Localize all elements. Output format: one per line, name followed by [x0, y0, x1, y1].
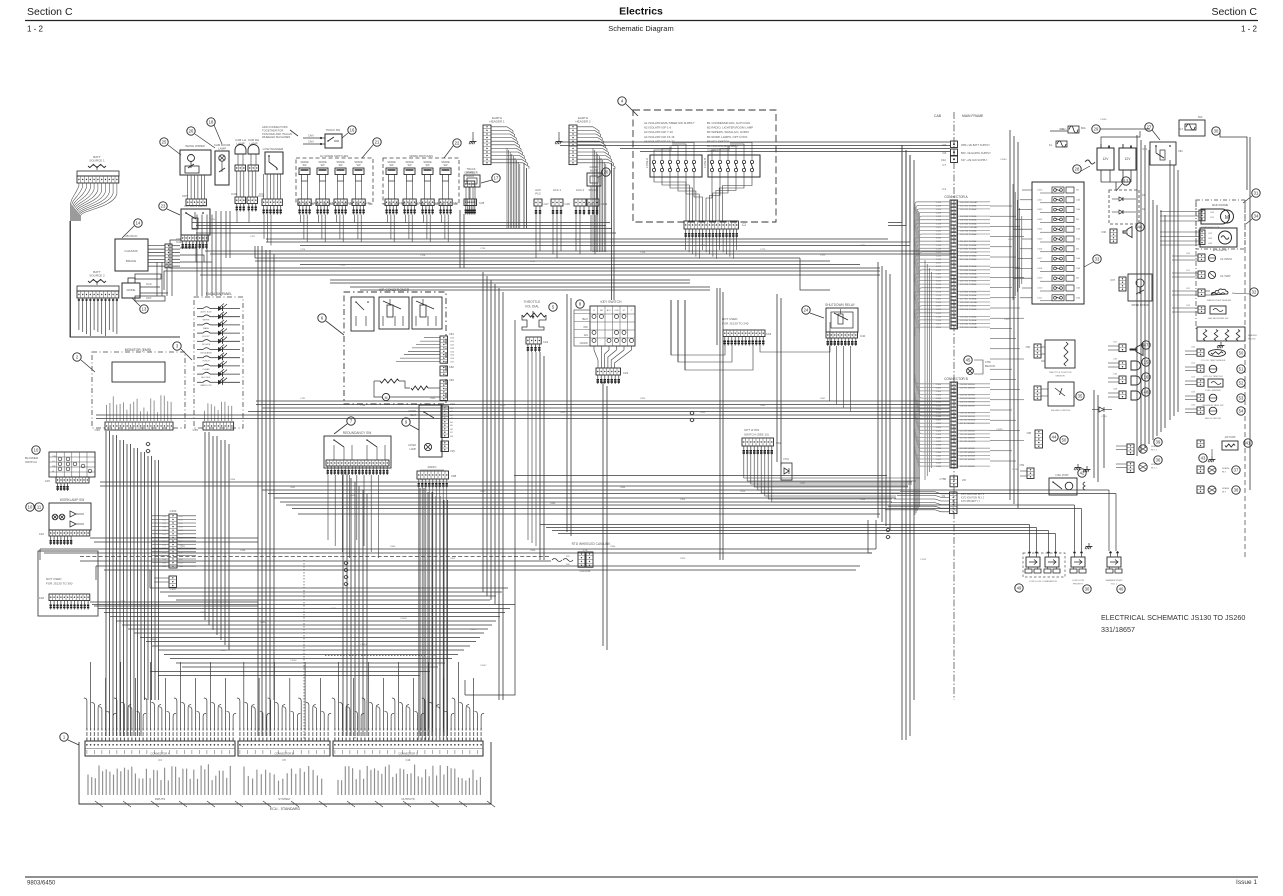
svg-text:1 - 2: 1 - 2: [1241, 25, 1258, 34]
svg-text:C833: C833: [700, 412, 706, 414]
svg-text:C12: C12: [941, 158, 947, 162]
svg-text:HEATER: HEATER: [1248, 334, 1257, 337]
svg-text:C1099: C1099: [996, 429, 1003, 431]
svg-text:8: 8: [579, 302, 582, 307]
svg-text:C102: C102: [601, 202, 608, 206]
svg-text:RESERVE TANK SW: RESERVE TANK SW: [1203, 404, 1225, 407]
svg-text:C847: C847: [820, 398, 826, 400]
connector C59: [1027, 468, 1034, 479]
svg-text:C60: C60: [435, 201, 440, 205]
svg-text:C58: C58: [1027, 432, 1032, 435]
svg-text:WASH: WASH: [203, 327, 210, 330]
not used connector: [49, 594, 90, 601]
svg-text:VOL DIAL: VOL DIAL: [525, 305, 539, 309]
dashed group box spare switches 2: [383, 158, 459, 204]
svg-text:C875: C875: [420, 479, 426, 481]
svg-text:38: 38: [1234, 488, 1239, 493]
svg-text:CHARGER: CHARGER: [464, 171, 477, 175]
svg-text:C106: C106: [936, 209, 942, 211]
svg-text:KEY SWITCH: KEY SWITCH: [600, 300, 622, 304]
dashed CAN bus line: [80, 556, 551, 558]
svg-text:C181: C181: [936, 298, 942, 300]
svg-text:15A: 15A: [1076, 238, 1080, 241]
svg-text:MID: MID: [52, 466, 56, 468]
page header rule: [25, 20, 1258, 22]
svg-text:RLY 2: RLY 2: [1151, 468, 1158, 470]
svg-text:C332: C332: [936, 441, 942, 443]
svg-text:40: 40: [1119, 587, 1124, 592]
svg-text:K13: K13: [162, 527, 166, 529]
svg-text:108 G8 SENSE: 108 G8 SENSE: [960, 412, 976, 414]
svg-text:53: 53: [1239, 396, 1244, 401]
svg-text:ST: ST: [623, 310, 626, 312]
svg-text:5A: 5A: [1076, 218, 1079, 221]
svg-text:C945: C945: [390, 546, 396, 548]
earth header 2 fan wires: [577, 127, 599, 133]
svg-text:C6: C6: [942, 143, 946, 147]
monitor connector C56: [105, 422, 173, 430]
svg-text:120 G0 SENSE: 120 G0 SENSE: [960, 455, 976, 457]
svg-text:W80 +VE BATT SUPPLY: W80 +VE BATT SUPPLY: [961, 143, 990, 147]
svg-text:49: 49: [1017, 586, 1022, 591]
svg-text:C1092: C1092: [1060, 129, 1067, 131]
opt hyds wires down: [744, 455, 920, 478]
svg-text:51: 51: [1239, 367, 1244, 372]
svg-text:ACC 1: ACC 1: [553, 188, 562, 192]
ladder right feed wires: [990, 205, 1012, 207]
valve feed wires: [1029, 525, 1031, 552]
svg-text:Section C: Section C: [1211, 6, 1257, 18]
svg-text:ADD CONNECTORS: ADD CONNECTORS: [262, 125, 288, 129]
svg-text:HYD OIL TEMP SW: HYD OIL TEMP SW: [1203, 376, 1223, 378]
solenoid valve V1: [1026, 557, 1040, 567]
svg-text:G26: G26: [450, 358, 455, 360]
circled ref 54: [1237, 407, 1245, 415]
svg-text:C409: C409: [1037, 278, 1043, 280]
svg-text:C312: C312: [936, 405, 942, 407]
svg-text:115 N5 SENSE: 115 N5 SENSE: [960, 438, 975, 440]
svg-text:H8: H8: [450, 436, 454, 438]
svg-text:K32: K32: [179, 523, 183, 525]
svg-text:AC SPARE SWITCHES: AC SPARE SWITCHES: [320, 154, 349, 158]
svg-text:OUTPUTS: OUTPUTS: [401, 797, 414, 801]
shutdown relay wires down: [829, 346, 831, 401]
circled ref 13: [140, 305, 148, 313]
svg-text:213 N03 SIGNAL: 213 N03 SIGNAL: [960, 247, 978, 250]
svg-text:C127: C127: [936, 234, 942, 236]
svg-text:FOR JS130 TO 240: FOR JS130 TO 240: [722, 322, 749, 326]
circled ref 23: [159, 202, 167, 210]
connector A ladder body: [950, 200, 958, 329]
svg-text:CONNECTOR B: CONNECTOR B: [274, 752, 293, 756]
connector B ladder body: [950, 382, 958, 468]
svg-text:C193: C193: [936, 313, 942, 315]
svg-text:OFF: OFF: [52, 456, 57, 458]
svg-text:SW: SW: [302, 164, 307, 167]
svg-text:C798: C798: [360, 405, 366, 407]
after-heat unit 9: [419, 405, 442, 457]
svg-text:LOW FLOW COMBINATION: LOW FLOW COMBINATION: [1029, 580, 1057, 583]
svg-text:TRACKED AND ITALIAN: TRACKED AND ITALIAN: [262, 132, 292, 136]
svg-text:C100: C100: [170, 509, 177, 513]
svg-text:C60: C60: [453, 201, 458, 205]
svg-text:50: 50: [1239, 351, 1244, 356]
svg-text:B2 RADIO, LIGHTER,ROOM LAMP: B2 RADIO, LIGHTER,ROOM LAMP: [707, 126, 753, 130]
svg-text:116 W6 SENSE: 116 W6 SENSE: [960, 441, 976, 443]
facia dashed box: [194, 297, 243, 428]
right column feed wires: [1160, 211, 1199, 213]
svg-text:C1057: C1057: [480, 665, 487, 667]
svg-text:5A: 5A: [1076, 247, 1079, 250]
svg-text:GAS RECEIVER SW: GAS RECEIVER SW: [1208, 317, 1229, 320]
circled refs 10 11: [26, 503, 34, 511]
svg-text:CHASSIS: CHASSIS: [124, 249, 137, 253]
wire bus from C44: [180, 248, 196, 262]
svg-text:C1043: C1043: [360, 644, 367, 646]
circled ref 30: [1212, 127, 1220, 135]
svg-text:C938: C938: [240, 550, 246, 552]
svg-text:SPARE: SPARE: [1222, 487, 1230, 490]
svg-text:THROTTLE POSITION: THROTTLE POSITION: [1049, 372, 1072, 374]
svg-text:K33: K33: [179, 527, 183, 529]
centre spare relay 2: [1127, 462, 1134, 473]
circled ref 20: [602, 168, 610, 176]
svg-text:C1064: C1064: [1000, 159, 1007, 161]
circled ref 51: [1237, 365, 1245, 373]
svg-text:Section C: Section C: [27, 6, 73, 18]
svg-text:C735: C735: [480, 248, 486, 250]
connector C87 under wash wiper: [186, 199, 206, 206]
svg-text:PLG: PLG: [535, 192, 541, 196]
svg-text:C84: C84: [1208, 243, 1213, 245]
svg-text:C130: C130: [936, 238, 942, 240]
svg-text:TORCH: TORCH: [202, 361, 210, 363]
svg-text:C175: C175: [936, 291, 942, 293]
track spare connector: [464, 181, 475, 187]
svg-text:9: 9: [405, 420, 408, 425]
svg-text:5A: 5A: [1076, 277, 1079, 280]
svg-text:2: 2: [76, 355, 79, 360]
svg-text:100 B0 SENSE: 100 B0 SENSE: [960, 384, 975, 386]
svg-text:INPUTS: INPUTS: [155, 797, 165, 801]
svg-text:LOW FLOW: LOW FLOW: [1072, 580, 1085, 582]
svg-text:C157: C157: [936, 270, 942, 272]
svg-text:MUTE: MUTE: [590, 169, 598, 173]
svg-text:C82: C82: [449, 365, 454, 369]
svg-text:A4 ISOLATR IGP 15-16: A4 ISOLATR IGP 15-16: [644, 135, 675, 139]
a/c relay 1: [351, 297, 374, 331]
svg-text:B3 WIPERS, WASH,A/C, HORN: B3 WIPERS, WASH,A/C, HORN: [707, 130, 749, 134]
svg-text:C81: C81: [1210, 217, 1215, 219]
svg-text:C407: C407: [1037, 258, 1043, 260]
svg-text:C763: C763: [700, 245, 706, 247]
svg-text:BOOST: BOOST: [202, 336, 210, 338]
svg-text:34: 34: [1254, 214, 1259, 219]
engine control unit 35: [1048, 382, 1074, 406]
svg-text:C728: C728: [420, 255, 426, 257]
circled ref 33: [1093, 255, 1101, 263]
svg-text:C27: C27: [544, 202, 550, 206]
circled ref 40: [1117, 585, 1125, 593]
main fuse 80A (ref 29): [1068, 126, 1079, 133]
spare relay row 1: [1197, 466, 1204, 473]
circled ref 49: [1015, 584, 1023, 592]
svg-text:C112: C112: [936, 216, 942, 218]
svg-text:15A: 15A: [1076, 296, 1080, 299]
monitor dashed box: [92, 352, 185, 428]
svg-text:C87: C87: [182, 194, 188, 198]
svg-text:REDUNDANCY SW: REDUNDANCY SW: [343, 431, 371, 435]
ECU riser wires: [86, 701, 88, 728]
twisted pair near monitor: [146, 442, 150, 446]
svg-text:5: 5: [552, 305, 555, 310]
svg-text:C60: C60: [366, 201, 371, 205]
svg-text:331/18657: 331/18657: [1101, 625, 1135, 634]
svg-text:A1 ISOLATR,EMS,TIMER,SW SUPPL: A1 ISOLATR,EMS,TIMER,SW SUPPLY: [644, 121, 695, 125]
svg-text:WIPER MOTOR: WIPER MOTOR: [1131, 304, 1149, 307]
solenoid valve V4: [1107, 557, 1121, 567]
svg-text:C812: C812: [500, 405, 506, 407]
ECU connector B: [238, 741, 330, 756]
svg-text:FACIA SW PANEL: FACIA SW PANEL: [206, 292, 232, 296]
svg-text:22: 22: [455, 141, 460, 146]
svg-text:C840: C840: [760, 405, 766, 407]
svg-text:K07 +VE IGN SUPPLY: K07 +VE IGN SUPPLY: [961, 158, 988, 162]
svg-text:208 X08 SIGNAL: 208 X08 SIGNAL: [960, 229, 978, 232]
circled ref 24: [802, 306, 810, 314]
sensor CYL OIL TEMP SENDER: [1197, 349, 1204, 356]
svg-text:CONNECTOR A: CONNECTOR A: [151, 752, 170, 756]
fuel transfer connector: [1035, 430, 1043, 448]
svg-text:C18: C18: [39, 596, 45, 600]
svg-text:C100: C100: [936, 202, 942, 204]
svg-text:C: C: [631, 310, 633, 312]
svg-text:C402: C402: [1037, 209, 1043, 211]
svg-text:C160: C160: [936, 273, 942, 275]
wire drops to facia area: [196, 215, 198, 297]
svg-text:C60: C60: [399, 201, 404, 205]
circled ref 16: [348, 126, 356, 134]
svg-text:Schematic Diagram: Schematic Diagram: [608, 24, 673, 33]
svg-text:H6: H6: [450, 429, 454, 431]
svg-text:K15: K15: [162, 534, 166, 536]
circled ref 7: [347, 417, 355, 425]
svg-text:A2 ISOLATR IGP 1-6: A2 ISOLATR IGP 1-6: [644, 126, 672, 130]
circled ref 52: [1237, 379, 1245, 387]
svg-text:101 R1 SENSE: 101 R1 SENSE: [960, 387, 976, 389]
svg-text:C401: C401: [1037, 199, 1043, 201]
svg-text:SOURCE 1: SOURCE 1: [89, 159, 105, 163]
legend dashed box: [633, 110, 776, 222]
svg-text:C742: C742: [530, 261, 536, 263]
diode near buzzer: [1099, 407, 1104, 412]
svg-text:K34: K34: [179, 530, 183, 532]
svg-text:SW: SW: [425, 164, 430, 167]
svg-text:35: 35: [1078, 394, 1083, 399]
svg-text:C320: C320: [936, 420, 942, 422]
a/c connector C83: [440, 380, 448, 400]
svg-text:C344: C344: [936, 463, 942, 465]
svg-text:C52: C52: [1191, 377, 1196, 379]
svg-text:C50: C50: [1191, 347, 1196, 349]
svg-text:C199: C199: [936, 320, 942, 322]
svg-text:50A: 50A: [1198, 116, 1203, 119]
circled ref 9: [402, 418, 410, 426]
connectors C30 C31 under cab lamps: [235, 197, 246, 204]
not used wiring centre: [671, 300, 725, 355]
svg-text:C83: C83: [1208, 238, 1213, 240]
svg-text:C700: C700: [210, 219, 216, 221]
throttle position sensor: [1045, 340, 1075, 368]
circled ref 42: [1078, 469, 1086, 477]
svg-text:H7: H7: [450, 432, 454, 434]
horn 46: [1110, 229, 1117, 243]
svg-text:BRAKE: BRAKE: [126, 259, 136, 263]
svg-text:C2: C2: [742, 223, 746, 227]
svg-text:HEADER 1: HEADER 1: [489, 120, 504, 124]
svg-text:C861: C861: [290, 487, 296, 489]
svg-text:SWITCH (SEE 10): SWITCH (SEE 10): [744, 433, 769, 437]
svg-text:SW: SW: [443, 164, 448, 167]
track switch option box 16: [325, 134, 342, 148]
circled ref 13b: [1122, 177, 1130, 185]
facia connector C55: [204, 411, 206, 421]
svg-text:C35: C35: [1113, 359, 1118, 361]
svg-text:C23: C23: [623, 371, 629, 375]
svg-text:C61: C61: [1186, 270, 1191, 272]
svg-text:C184: C184: [936, 302, 942, 304]
svg-text:222 X02 SIGNAL: 222 X02 SIGNAL: [960, 280, 978, 283]
mainframe right dashed edge: [1244, 200, 1246, 560]
svg-text:C202: C202: [936, 324, 942, 326]
svg-text:C1015: C1015: [470, 629, 477, 631]
svg-text:C205: C205: [936, 327, 942, 329]
svg-text:HAMMER PUMP: HAMMER PUMP: [1106, 579, 1123, 582]
fuse column box: [1032, 182, 1084, 304]
svg-text:IGN: IGN: [584, 334, 589, 337]
svg-text:SPARE: SPARE: [588, 188, 597, 192]
svg-text:C62: C62: [1186, 288, 1191, 290]
svg-text:OPT HYDS: OPT HYDS: [744, 428, 759, 432]
svg-text:235 W05 SIGNAL: 235 W05 SIGNAL: [960, 326, 978, 329]
svg-text:47: 47: [1144, 343, 1149, 348]
circled ref 50: [1237, 349, 1245, 357]
ECU connector A: [85, 741, 235, 756]
svg-text:223 K03 SIGNAL: 223 K03 SIGNAL: [960, 283, 978, 286]
circled ref 41: [1244, 439, 1252, 447]
svg-text:54: 54: [1239, 409, 1244, 414]
sensor HYD OIL TEMP SW: [1197, 365, 1204, 372]
bulkhead connector C12: [951, 156, 958, 163]
svg-text:15A: 15A: [1076, 267, 1080, 270]
svg-text:FUSE A: FUSE A: [645, 158, 649, 168]
svg-text:C408: C408: [1037, 268, 1043, 270]
svg-text:K43: K43: [179, 563, 183, 565]
svg-text:LAMP: LAMP: [409, 448, 416, 451]
svg-text:C15: C15: [45, 479, 51, 483]
svg-text:C82: C82: [1208, 233, 1213, 235]
svg-text:DIODE: DIODE: [127, 288, 136, 292]
svg-text:C756: C756: [640, 252, 646, 254]
svg-text:201 X01 SIGNAL: 201 X01 SIGNAL: [960, 204, 978, 207]
svg-text:C75B: C75B: [940, 477, 947, 481]
svg-text:C826: C826: [640, 398, 646, 400]
circled ref 32: [1250, 288, 1258, 296]
svg-text:K30: K30: [179, 516, 183, 518]
circled ref 10: [32, 446, 40, 454]
svg-text:C1008: C1008: [400, 618, 407, 620]
svg-text:111 K1 SENSE: 111 K1 SENSE: [960, 423, 975, 425]
svg-text:C306: C306: [936, 395, 942, 397]
svg-text:G24: G24: [450, 351, 455, 353]
svg-text:AIR TEMP: AIR TEMP: [1225, 436, 1236, 439]
svg-text:44: 44: [1052, 435, 1057, 440]
svg-text:21: 21: [375, 140, 380, 145]
svg-text:CYL OIL TEMP SENDER: CYL OIL TEMP SENDER: [1201, 360, 1226, 362]
svg-text:C5: C5: [282, 758, 286, 762]
wire left vertical feed: [70, 221, 180, 337]
diode box 13: [122, 283, 140, 298]
solenoid valve V3: [1071, 557, 1085, 567]
svg-text:WORKLAMP SW: WORKLAMP SW: [60, 498, 85, 502]
svg-text:C410: C410: [1037, 288, 1043, 290]
circled ref 53: [1237, 394, 1245, 402]
svg-text:C973: C973: [680, 558, 686, 560]
svg-text:ACC: ACC: [607, 309, 612, 312]
circled ref 38: [1232, 486, 1240, 494]
svg-text:SHUTDOWN RELAY: SHUTDOWN RELAY: [825, 303, 856, 307]
radio panel wires down: [418, 488, 420, 740]
svg-text:C109: C109: [936, 213, 942, 215]
aux connector bus drops: [535, 215, 537, 258]
svg-text:BR: BR: [600, 310, 603, 312]
solenoid valve dashed group: [1023, 553, 1065, 577]
svg-text:C903: C903: [680, 499, 686, 501]
svg-text:G21: G21: [450, 341, 455, 343]
connector C28 track charger: [466, 199, 477, 206]
svg-text:C81: C81: [449, 332, 454, 336]
svg-text:28: 28: [1075, 167, 1080, 172]
svg-text:C896: C896: [620, 487, 626, 489]
horizontal bus wires: [192, 222, 610, 224]
svg-text:AIR FILTER SW: AIR FILTER SW: [1205, 417, 1222, 420]
svg-text:B00 -VE EARTH SUPPLY: B00 -VE EARTH SUPPLY: [961, 151, 991, 155]
svg-text:ALT: ALT: [1179, 128, 1184, 131]
svg-text:C749: C749: [575, 239, 581, 241]
bulkhead connector C6: [951, 141, 958, 148]
heater plugs: [1197, 327, 1245, 341]
circled ref 1: [60, 733, 68, 741]
svg-text:16: 16: [350, 128, 355, 133]
svg-text:119 R9 SENSE: 119 R9 SENSE: [960, 452, 975, 454]
svg-text:TOGETHER FOR: TOGETHER FOR: [262, 128, 283, 132]
battery 2 12V: [1119, 148, 1136, 170]
svg-text:C50: C50: [1026, 346, 1031, 349]
svg-text:C334: C334: [936, 445, 942, 447]
throttle wires down: [527, 352, 529, 540]
svg-text:SW: SW: [407, 164, 412, 167]
svg-text:C931: C931: [180, 546, 186, 548]
svg-text:C324: C324: [936, 427, 942, 429]
svg-text:20: 20: [604, 170, 609, 175]
svg-text:1 - 2: 1 - 2: [27, 25, 44, 34]
svg-text:C1071: C1071: [1008, 239, 1015, 241]
svg-text:R31: R31: [566, 556, 571, 558]
svg-text:C118: C118: [936, 223, 942, 225]
svg-text:C411: C411: [1037, 297, 1043, 299]
connector A right labels: [958, 201, 990, 203]
svg-text:10: 10: [34, 448, 39, 453]
